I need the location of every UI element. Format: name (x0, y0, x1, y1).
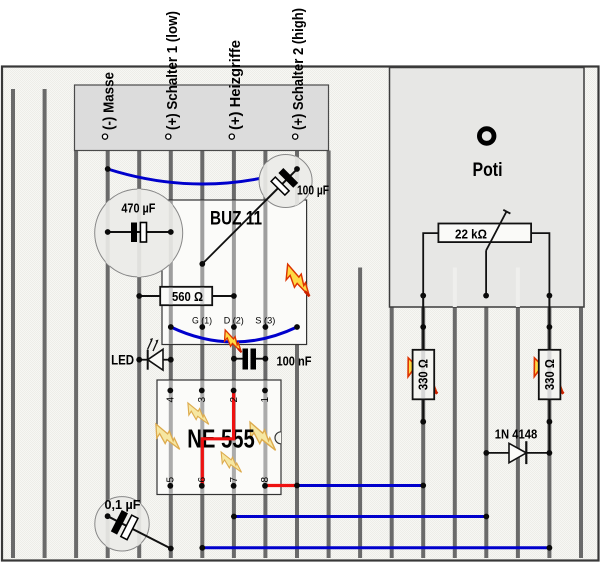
node blue3 left (199, 545, 205, 551)
wire blue arc BUZ pins (track6 to track10) (171, 327, 297, 342)
resistor R3 330 Ohm (413, 350, 435, 422)
node C3 left track8 (231, 356, 237, 362)
wire poti left lead (423, 233, 438, 296)
IC pin 7 (229, 477, 240, 489)
lightning bolt at R3 (399, 354, 443, 401)
node C2 top track10 (294, 166, 300, 172)
label BUZ 11 (210, 209, 262, 230)
diode D2 1N4148 (486, 441, 549, 464)
IC pin 3 (197, 388, 208, 403)
capacitor C4 0,1 uF bubble (95, 496, 171, 552)
svg-text:(+) Heizgriffe: (+) Heizgriffe (228, 40, 244, 130)
node blue1 left (294, 483, 300, 489)
label 1N 4148 (495, 428, 538, 442)
node blue2 left (231, 514, 237, 520)
track 16 (484, 307, 488, 558)
track 14 (421, 307, 425, 558)
pin label D (2) (224, 316, 244, 327)
track 4 (Masse) (106, 151, 110, 559)
node C1 right track6 (168, 229, 174, 235)
node C4 right track6 (168, 546, 174, 552)
svg-text:1N 4148: 1N 4148 (495, 428, 538, 442)
svg-text:(+) Schalter 2 (high): (+) Schalter 2 (high) (291, 8, 307, 130)
connector terminal strip (75, 85, 329, 151)
lightning bolt NE555 b (149, 421, 183, 456)
wire track14 vertical (422, 296, 424, 350)
node poti wiper (483, 293, 489, 299)
label 560 Ohm (172, 290, 203, 304)
node diode right track18 (547, 450, 553, 456)
label 470 uF (121, 202, 155, 216)
track 1 (11, 89, 15, 558)
node poti left (420, 293, 426, 299)
IC notch (275, 432, 281, 444)
track 10 (Schalter 2) (295, 151, 299, 559)
lightning bolt at R4 (525, 354, 569, 401)
label 0,1 uF (105, 498, 141, 512)
IC pin 6 (197, 477, 208, 489)
wire blue arc top (track4 to track10) (108, 169, 297, 184)
label LED (111, 353, 134, 368)
svg-text:7: 7 (229, 477, 240, 483)
poti shaft ring (479, 129, 494, 144)
lightning bolt NE555 d (243, 418, 280, 456)
wire blue pin8 to track14 (297, 484, 423, 487)
node R1 left track5 (136, 293, 142, 299)
label NE 555 (187, 426, 255, 454)
wire track18 vertical (548, 296, 550, 350)
svg-text:470 µF: 470 µF (121, 202, 155, 216)
track 2 (43, 89, 47, 558)
svg-text:(-) Masse: (-) Masse (102, 72, 118, 130)
wire blue track7 to track18 (202, 546, 549, 549)
capacitor C3 100 nF (234, 349, 266, 370)
node blue2 right (483, 514, 489, 520)
IC pin 4 (166, 388, 177, 403)
lightning bolt at D2 pin (219, 328, 245, 357)
wire poti wiper lead (485, 251, 487, 296)
node poti right (547, 293, 553, 299)
svg-text:22 kΩ: 22 kΩ (455, 228, 487, 242)
svg-text:330 Ω: 330 Ω (417, 359, 431, 390)
track 13 (390, 307, 394, 558)
IC pin 8 (260, 477, 271, 489)
capacitor C2 100 uF bubble (259, 154, 312, 208)
terminal hole Schalter 2 (293, 134, 298, 139)
IC pin 5 (166, 477, 177, 489)
wire red pin8 out (265, 484, 297, 487)
node diode left track16 (483, 450, 489, 456)
svg-text:0,1 µF: 0,1 µF (105, 498, 141, 512)
track 3 (74, 89, 78, 558)
svg-text:3: 3 (197, 397, 208, 403)
node drain (199, 261, 205, 267)
svg-text:5: 5 (166, 477, 177, 483)
track 18 (547, 307, 551, 558)
resistor R4 330 Ohm (539, 350, 561, 453)
node LED right track6 (168, 357, 174, 363)
label 22 kOhm (455, 228, 487, 242)
LED D1 (139, 338, 169, 370)
svg-text:LED: LED (111, 353, 134, 368)
node blue3 right (547, 545, 553, 551)
track 17 (516, 307, 520, 558)
node track18 contact (547, 324, 553, 330)
node C3 right track9 (263, 356, 269, 362)
svg-text:100 µF: 100 µF (297, 184, 329, 198)
svg-text:1: 1 (260, 397, 271, 403)
resistor R1 560 Ohm (139, 287, 234, 305)
label Poti (473, 160, 503, 181)
label 100 nF (277, 355, 312, 369)
terminal hole Heizgriffe (229, 134, 234, 139)
stripboard tracks (11, 89, 583, 558)
lightning bolt NE555 c (216, 449, 245, 477)
pin label S (3) (255, 316, 275, 327)
track 9 (263, 151, 267, 559)
wire blue track8 to track16 (234, 515, 486, 518)
label R3 330 Ohm (417, 359, 431, 390)
track 8 (Heizgriffe) (232, 151, 236, 559)
track 12 (358, 268, 362, 559)
track 19 (579, 307, 583, 558)
IC pin 1 (260, 388, 271, 403)
wire poti right lead (531, 233, 549, 296)
track 11 (327, 151, 331, 559)
lightning bolt NE555 a (182, 400, 212, 430)
potentiometer module box (390, 68, 585, 308)
label 100 uF (297, 184, 329, 198)
node gate row track9 (263, 324, 269, 330)
capacitor C1 470 uF bubble (95, 189, 183, 277)
pin label G (1) (192, 316, 212, 327)
svg-text:4: 4 (166, 397, 177, 403)
label R4 330 Ohm (543, 359, 557, 390)
svg-text:(+) Schalter 1 (low): (+) Schalter 1 (low) (165, 11, 181, 130)
svg-text:8: 8 (260, 477, 271, 483)
svg-text:560 Ω: 560 Ω (172, 290, 203, 304)
track 6 (Schalter 1) (169, 151, 173, 559)
node blue1 right (420, 483, 426, 489)
node arc1 left track4 (105, 166, 111, 172)
node LED left track5 (136, 357, 142, 363)
wire BUZ drain diagonal (202, 169, 297, 264)
svg-text:330 Ω: 330 Ω (543, 359, 557, 390)
node gate row track10 (294, 324, 300, 330)
node R1 right track8 (231, 293, 237, 299)
terminal hole Masse (102, 134, 107, 139)
label (-) Masse (102, 72, 118, 130)
IC U1 NE 555 outline box (157, 380, 281, 495)
potentiometer R2 22 kOhm (438, 210, 531, 251)
label (+) Heizgriffe (228, 40, 244, 130)
node track14 contact (420, 324, 426, 330)
node R4 bottom (547, 419, 553, 425)
svg-text:Poti: Poti (473, 160, 503, 181)
transistor T1 BUZ 11 outline box (162, 200, 307, 345)
terminal hole Schalter 1 (166, 134, 171, 139)
node C4 left track4 (105, 513, 111, 519)
node R3 bottom (420, 419, 426, 425)
wire red pin2 to pin6 (202, 391, 233, 486)
IC pin 2 (229, 388, 240, 403)
node C1 left track4 (105, 229, 111, 235)
svg-text:100 nF: 100 nF (277, 355, 312, 369)
track 5 (137, 151, 141, 559)
track 7 (200, 151, 204, 559)
track 15 (453, 307, 457, 558)
node gate row track6 (168, 324, 174, 330)
node gate row track7 (199, 324, 205, 330)
label (+) Schalter 2 (high) (291, 8, 307, 130)
node gate row track8 (231, 324, 237, 330)
lightning bolt at BUZ drain (279, 261, 314, 302)
label (+) Schalter 1 (low) (165, 11, 181, 130)
svg-text:2: 2 (229, 397, 240, 403)
svg-text:6: 6 (197, 477, 208, 483)
